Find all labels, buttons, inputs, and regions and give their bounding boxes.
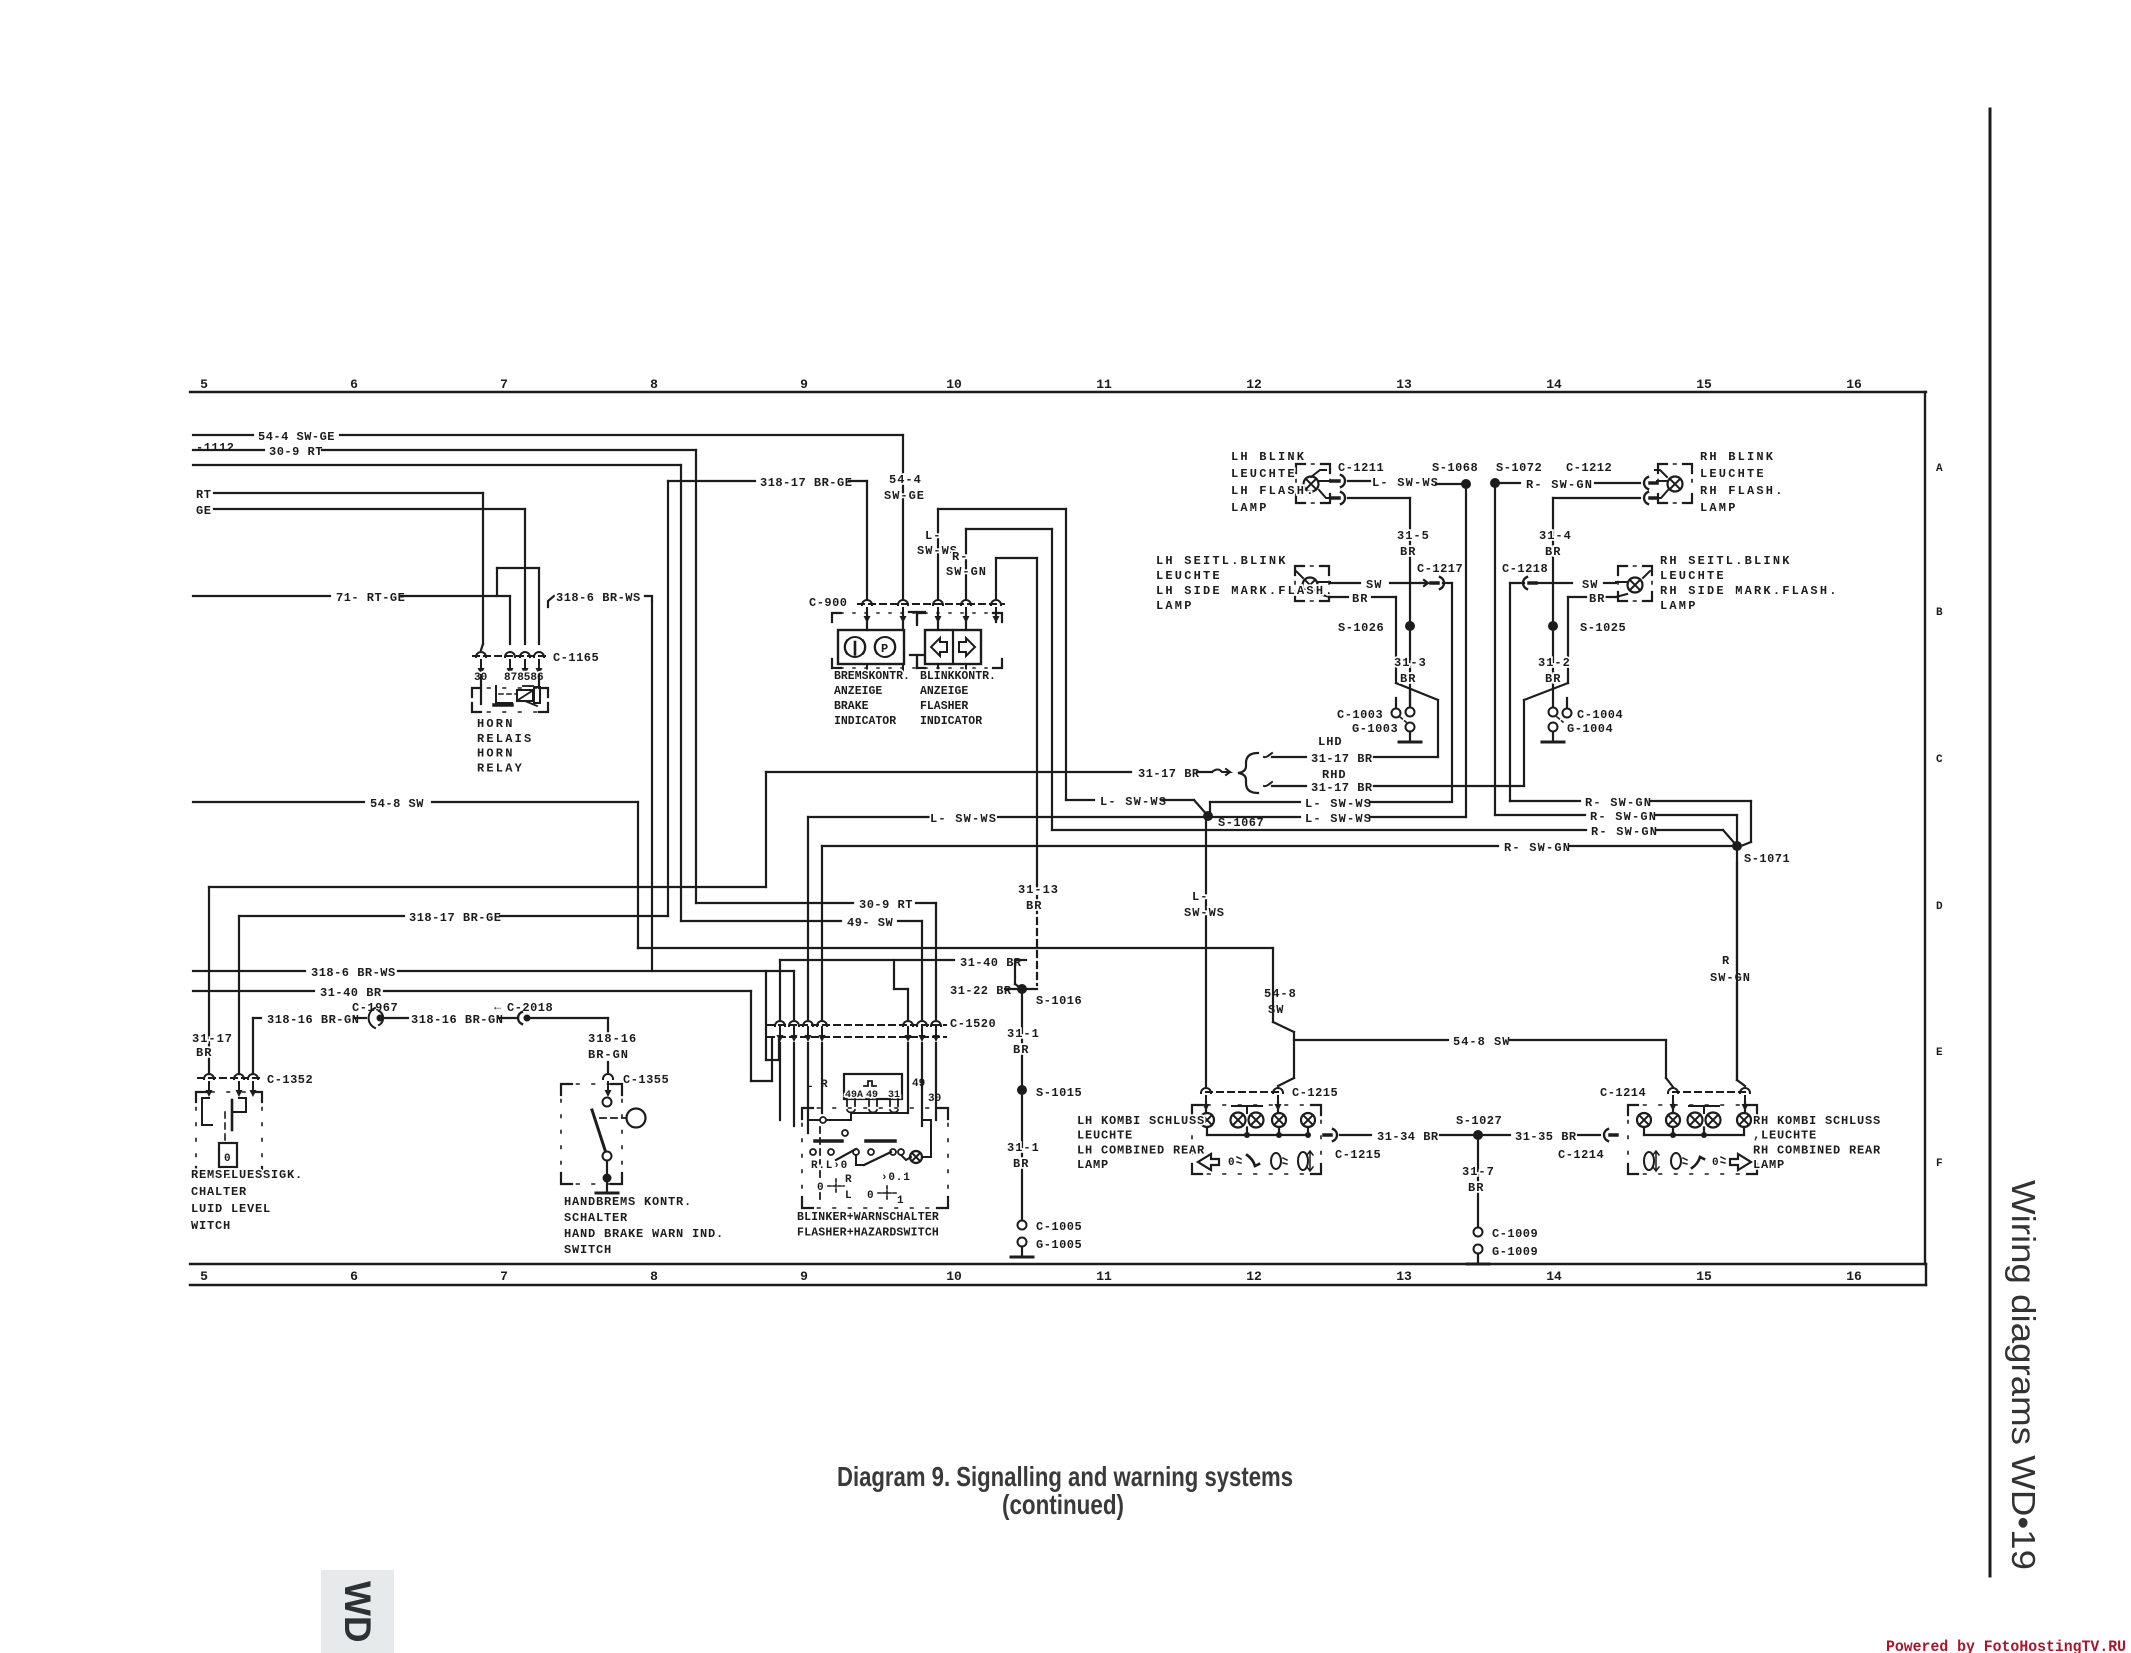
junction S-1027 <box>1456 1114 1502 1227</box>
svg-text:14: 14 <box>1546 377 1562 392</box>
cable -1112 label <box>196 441 235 455</box>
svg-text:RHD: RHD <box>1322 768 1347 782</box>
column numbers top <box>200 377 1862 392</box>
svg-text:L: L <box>845 1190 852 1202</box>
svg-text:LUID LEVEL: LUID LEVEL <box>191 1202 271 1216</box>
svg-text:16: 16 <box>1846 377 1862 392</box>
svg-text:C-1211: C-1211 <box>1338 461 1384 475</box>
svg-text:C-1165: C-1165 <box>553 651 599 665</box>
svg-text:6: 6 <box>350 1269 358 1284</box>
svg-text:8: 8 <box>650 1269 658 1284</box>
svg-text:31-34 BR: 31-34 BR <box>1377 1130 1439 1144</box>
wire 31-35 BR <box>1478 1130 1600 1144</box>
svg-text:WD: WD <box>337 1581 378 1643</box>
svg-text:S-1016: S-1016 <box>1036 994 1082 1008</box>
wire 318-6 BR-WS label top <box>548 591 652 971</box>
svg-text:RT: RT <box>196 488 211 502</box>
svg-text:RH SIDE MARK.FLASH.: RH SIDE MARK.FLASH. <box>1660 584 1839 598</box>
svg-text:HORN: HORN <box>477 717 515 731</box>
svg-text:FLASHER: FLASHER <box>920 700 968 713</box>
svg-text:F: F <box>1936 1158 1943 1170</box>
wire RT stalk <box>196 488 483 650</box>
wire 54-8 SW long run <box>638 947 1273 949</box>
svg-text:C-900: C-900 <box>809 596 848 610</box>
svg-text:31-17 BR: 31-17 BR <box>1311 752 1373 766</box>
LH rear lamp labels <box>1077 1114 1205 1172</box>
svg-text:WITCH: WITCH <box>191 1219 231 1233</box>
connector C-1355 <box>603 1073 669 1097</box>
brakefluid switch <box>196 1092 262 1177</box>
svg-text:31-1: 31-1 <box>1007 1027 1040 1041</box>
wire horn relay link <box>497 568 539 644</box>
svg-text:31-17 BR: 31-17 BR <box>1138 767 1200 781</box>
svg-text:RELAIS: RELAIS <box>477 732 533 746</box>
svg-text:LH SIDE MARK.FLASH.: LH SIDE MARK.FLASH. <box>1156 584 1335 598</box>
junction S-1025 <box>1538 621 1626 712</box>
junction S-1068 <box>1432 461 1478 817</box>
WD page tab box <box>321 1570 394 1653</box>
connector C-1218 <box>1502 562 1548 801</box>
svg-text:318-16: 318-16 <box>588 1032 637 1046</box>
svg-text:31-5: 31-5 <box>1397 529 1430 543</box>
svg-text:5: 5 <box>200 377 208 392</box>
wire 31-34 BR <box>1340 1130 1478 1144</box>
svg-text:CHALTER: CHALTER <box>191 1185 247 1199</box>
svg-text:8: 8 <box>650 377 658 392</box>
svg-text:RH KOMBI SCHLUSS: RH KOMBI SCHLUSS <box>1753 1114 1881 1128</box>
svg-text:54-8 SW: 54-8 SW <box>1453 1035 1510 1049</box>
wire 318-6 BR-WS bus <box>193 966 794 1019</box>
connector C-1215 top <box>1201 1086 1338 1111</box>
wire 71- RT-GE <box>193 591 510 644</box>
label RHD <box>1322 768 1347 782</box>
wire 31-17 BR main <box>766 767 1230 887</box>
RH rear lamp labels <box>1753 1114 1881 1172</box>
svg-text:BR-GN: BR-GN <box>588 1048 629 1062</box>
svg-text:LH BLINK: LH BLINK <box>1231 450 1306 464</box>
svg-text:S-1026: S-1026 <box>1338 621 1384 635</box>
svg-text:31-22 BR: 31-22 BR <box>950 984 1012 998</box>
wire 318-17 BR-GE to C-900 <box>668 476 867 916</box>
svg-text:BR: BR <box>1545 672 1561 686</box>
svg-text:G-1005: G-1005 <box>1036 1238 1082 1252</box>
svg-text:C-1009: C-1009 <box>1492 1227 1538 1241</box>
svg-text:LAMP: LAMP <box>1077 1158 1109 1172</box>
svg-text:31-17 BR: 31-17 BR <box>1311 781 1373 795</box>
svg-text:31-1: 31-1 <box>1007 1141 1040 1155</box>
horn relay label <box>477 717 533 775</box>
svg-text:L- SW-WS: L- SW-WS <box>1100 795 1167 809</box>
svg-text:0: 0 <box>867 1190 874 1202</box>
svg-text:S-1027: S-1027 <box>1456 1114 1502 1128</box>
svg-text:BR: BR <box>1026 899 1042 913</box>
svg-text:G-1003: G-1003 <box>1352 722 1398 736</box>
svg-text:6: 6 <box>350 377 358 392</box>
svg-text:SW: SW <box>1268 1003 1284 1017</box>
wire 49 feed line <box>193 465 681 921</box>
svg-text:L- SW-WS: L- SW-WS <box>930 812 997 826</box>
connector C-1005 <box>1018 1220 1083 1234</box>
svg-text:10: 10 <box>946 1269 962 1284</box>
svg-text:(continued): (continued) <box>1002 1489 1124 1520</box>
wire 30-9 RT feed <box>193 445 696 903</box>
wire R- SW-GN A <box>1510 796 1751 846</box>
wire 318-17 BR-GE lower <box>239 911 668 1074</box>
wire 54-8 SW <box>193 797 638 948</box>
wire GE stalk <box>196 504 525 644</box>
svg-text:›0.1: ›0.1 <box>881 1172 911 1184</box>
svg-text:54-4: 54-4 <box>889 473 922 487</box>
sidebar text Wiring diagrams WD-19 <box>2005 1180 2042 1570</box>
svg-text:C-1218: C-1218 <box>1502 562 1548 576</box>
svg-text:C-1352: C-1352 <box>267 1073 313 1087</box>
brake indicator U1 box <box>838 612 904 664</box>
brake indicator label <box>834 670 910 728</box>
svg-text:7: 7 <box>500 1269 508 1284</box>
svg-text:L- SW-WS: L- SW-WS <box>1305 797 1372 811</box>
svg-text:13: 13 <box>1396 1269 1412 1284</box>
svg-text:BR: BR <box>1352 592 1368 606</box>
frame top ruler line <box>190 391 1926 393</box>
svg-text:C-1520: C-1520 <box>950 1017 996 1031</box>
wire R- SW-GN B <box>1495 810 1737 846</box>
horn relay pin numbers <box>474 672 544 684</box>
svg-text:14: 14 <box>1546 1269 1562 1284</box>
svg-text:30-9 RT: 30-9 RT <box>859 898 913 912</box>
svg-text:Powered by FotoHostingTV.RU: Powered by FotoHostingTV.RU <box>1886 1638 2126 1653</box>
svg-text:C-2018: C-2018 <box>507 1001 553 1015</box>
svg-text:Wiring diagrams WD•19: Wiring diagrams WD•19 <box>2005 1180 2042 1570</box>
wire 31-40 BR branch 2 <box>780 956 1026 1019</box>
wire L- SW-WS row A <box>1348 476 1466 490</box>
svg-text:11: 11 <box>1096 1269 1112 1284</box>
brakefluid switch label <box>191 1168 303 1233</box>
junction S-1071 <box>1732 841 1790 1080</box>
svg-text:15: 15 <box>1696 377 1712 392</box>
svg-text:31-7: 31-7 <box>1462 1165 1495 1179</box>
RH side marker lamp <box>1616 566 1652 601</box>
svg-text:BR: BR <box>1400 545 1416 559</box>
svg-text:A: A <box>1936 463 1943 475</box>
connector C-1217 <box>1417 562 1463 801</box>
svg-text:D: D <box>1936 901 1943 913</box>
svg-text:C-1212: C-1212 <box>1566 461 1612 475</box>
hazard switch box <box>802 1108 948 1208</box>
svg-text:C-1214: C-1214 <box>1558 1148 1604 1162</box>
svg-text:BR: BR <box>1545 545 1561 559</box>
svg-text:31-40 BR: 31-40 BR <box>960 956 1022 970</box>
connector C-1165 <box>473 651 599 675</box>
svg-text:SW-GE: SW-GE <box>884 489 925 503</box>
LH flash lamp label <box>1231 450 1316 515</box>
wire 31-17 BR branch <box>209 887 766 1074</box>
svg-text:BR: BR <box>1013 1157 1029 1171</box>
wire 54-4 SW-GE feed <box>193 430 903 599</box>
wire 31-17 BR LHD <box>1264 735 1438 766</box>
wire 54-8 SW right <box>1264 948 1673 1087</box>
svg-text:54-4 SW-GE: 54-4 SW-GE <box>258 430 335 444</box>
svg-text:9: 9 <box>800 1269 808 1284</box>
svg-text:,LEUCHTE: ,LEUCHTE <box>1753 1129 1817 1143</box>
svg-text:BLINKER+WARNSCHALTER: BLINKER+WARNSCHALTER <box>797 1211 939 1224</box>
row letters A-F <box>1936 463 1943 1170</box>
wire L- SW-WS to C-1217 <box>1210 797 1452 816</box>
svg-text:LEUCHTE: LEUCHTE <box>1660 569 1726 583</box>
wire 31-40 BR bus <box>193 986 772 1081</box>
svg-text:878586: 878586 <box>504 672 544 684</box>
wire L- SW-WS upper <box>1066 795 1208 816</box>
svg-text:11: 11 <box>1096 377 1112 392</box>
junction S-1067 <box>1203 811 1264 830</box>
svg-text:LH COMBINED REAR: LH COMBINED REAR <box>1077 1143 1205 1157</box>
svg-text:LAMP: LAMP <box>1156 599 1194 613</box>
connector C-1214 side <box>1558 1129 1617 1162</box>
svg-text:BR: BR <box>1589 592 1605 606</box>
svg-text:C-1215: C-1215 <box>1335 1148 1381 1162</box>
junction S-1072 <box>1490 461 1542 815</box>
svg-text:318-17 BR-GE: 318-17 BR-GE <box>409 911 501 925</box>
svg-text:C-1004: C-1004 <box>1577 708 1623 722</box>
svg-text:30-9 RT: 30-9 RT <box>269 445 323 459</box>
junction S-1016 <box>1007 984 1082 1086</box>
svg-text:49: 49 <box>912 1078 925 1090</box>
svg-text:L- SW-WS: L- SW-WS <box>1305 812 1372 826</box>
wire 318-16 BR-GN left <box>253 1013 366 1074</box>
svg-text:0: 0 <box>817 1182 824 1194</box>
wire 318-16 BR-GN mid <box>411 1013 518 1027</box>
svg-text:R- SW-GN: R- SW-GN <box>1591 825 1658 839</box>
ground G-1005 <box>1011 1238 1082 1258</box>
svg-text:BRAKE: BRAKE <box>834 700 869 713</box>
svg-text:R- SW-GN: R- SW-GN <box>1590 810 1657 824</box>
svg-text:INDICATOR: INDICATOR <box>834 715 896 728</box>
connector C-1214 top <box>1600 1086 1750 1111</box>
wire BR RH marker <box>1524 592 1616 786</box>
wire 31-17 BR label left <box>192 1032 233 1060</box>
svg-text:LH SEITL.BLINK: LH SEITL.BLINK <box>1156 554 1288 568</box>
svg-text:R: R <box>845 1174 852 1186</box>
wire 49- SW to switch <box>681 916 922 1019</box>
horn relay K1 box <box>472 675 548 712</box>
svg-text:10: 10 <box>946 377 962 392</box>
svg-text:C-1217: C-1217 <box>1417 562 1463 576</box>
svg-text:-1112: -1112 <box>196 441 235 455</box>
frame right border <box>1924 392 1926 1264</box>
sidebar separator line <box>1989 109 1992 1576</box>
caption title <box>837 1461 1293 1520</box>
svg-text:31-17: 31-17 <box>192 1032 233 1046</box>
svg-text:5: 5 <box>200 1269 208 1284</box>
svg-text:HAND BRAKE WARN IND.: HAND BRAKE WARN IND. <box>564 1227 724 1241</box>
connector C-2018 <box>494 1000 608 1036</box>
svg-text:LAMP: LAMP <box>1660 599 1698 613</box>
svg-text:9: 9 <box>800 377 808 392</box>
svg-text:71- RT-GE: 71- RT-GE <box>336 591 405 605</box>
svg-text:INDICATOR: INDICATOR <box>920 715 982 728</box>
svg-text:REMSFLUESSIGK.: REMSFLUESSIGK. <box>191 1168 303 1182</box>
svg-text:BR: BR <box>196 1046 212 1060</box>
svg-text:30: 30 <box>928 1093 941 1105</box>
column numbers bottom <box>200 1269 1862 1284</box>
wire 31-22 BR <box>950 984 1022 998</box>
svg-text:31-13: 31-13 <box>1018 883 1059 897</box>
wire 318-16 BR-GN drop <box>588 1032 637 1072</box>
svg-text:S-1071: S-1071 <box>1744 852 1790 866</box>
svg-text:54-8 SW: 54-8 SW <box>370 797 424 811</box>
svg-text:BR: BR <box>1013 1043 1029 1057</box>
svg-text:C-1003: C-1003 <box>1337 708 1383 722</box>
wire L bus drop <box>807 817 809 1019</box>
flasher indicator label <box>920 670 996 728</box>
svg-text:1: 1 <box>897 1195 904 1207</box>
svg-text:C-1214: C-1214 <box>1600 1086 1646 1100</box>
svg-text:S-1072: S-1072 <box>1496 461 1542 475</box>
svg-text:BR: BR <box>1468 1181 1484 1195</box>
svg-text:R.L›0: R.L›0 <box>811 1160 848 1172</box>
wire R- SW-GN row A <box>1495 478 1640 492</box>
svg-text:BREMSKONTR.: BREMSKONTR. <box>834 670 910 683</box>
svg-text:HANDBREMS KONTR.: HANDBREMS KONTR. <box>564 1195 692 1209</box>
wire label 54-4 SW-GE vertical <box>884 473 925 503</box>
watermark Powered by FotoHostingTV.RU <box>1886 1638 2126 1653</box>
handbrake switch <box>561 1084 646 1193</box>
connector C-1003 <box>1337 698 1415 722</box>
svg-text:LHD: LHD <box>1318 735 1343 749</box>
svg-text:R- SW-GN: R- SW-GN <box>1526 478 1593 492</box>
frame bottom ruler <box>190 1264 1926 1285</box>
RH side marker label <box>1660 554 1839 613</box>
hazard switch position marks <box>811 1160 911 1207</box>
hazard switch internals <box>780 1043 941 1200</box>
svg-text:RH SEITL.BLINK: RH SEITL.BLINK <box>1660 554 1792 568</box>
svg-text:0: 0 <box>224 1153 231 1165</box>
connector C-900 <box>809 596 1004 623</box>
wire R-SW-GN to RH rear <box>1710 862 1751 1086</box>
svg-text:C-1005: C-1005 <box>1036 1220 1082 1234</box>
LH rear lamp cluster box <box>1192 1102 1321 1174</box>
wire 31-13 BR indicator ground <box>996 558 1037 985</box>
svg-text:12: 12 <box>1246 377 1262 392</box>
svg-text:318-16 BR-GN: 318-16 BR-GN <box>267 1013 359 1027</box>
svg-text:31-4: 31-4 <box>1539 529 1572 543</box>
svg-text:LEUCHTE: LEUCHTE <box>1231 467 1297 481</box>
svg-text:R-: R- <box>952 550 968 564</box>
svg-text:←: ← <box>494 1000 502 1014</box>
svg-text:S-1015: S-1015 <box>1036 1086 1082 1100</box>
svg-text:ANZEIGE: ANZEIGE <box>920 685 968 698</box>
svg-text:SCHALTER: SCHALTER <box>564 1211 628 1225</box>
svg-text:7: 7 <box>500 377 508 392</box>
wire 31-17 BR RHD <box>1264 781 1524 795</box>
svg-text:31-40 BR: 31-40 BR <box>320 986 382 1000</box>
svg-text:L- SW-WS: L- SW-WS <box>1372 476 1439 490</box>
connector C-1004 <box>1549 698 1624 722</box>
svg-text:318-16 BR-GN: 318-16 BR-GN <box>411 1013 503 1027</box>
svg-text:GE: GE <box>196 504 211 518</box>
svg-text:RELAY: RELAY <box>477 761 524 775</box>
wire SW to C-1217 <box>1330 578 1428 592</box>
wire label R-SW-GN <box>946 550 987 579</box>
wire L-SW-WS to LH rear <box>1184 816 1225 1086</box>
connector C-1009 <box>1474 1227 1539 1241</box>
junction S-1015 <box>1007 1085 1082 1220</box>
wire label L-SW-WS <box>917 529 958 558</box>
connector C-1352 <box>198 1073 313 1097</box>
flasher unit box <box>844 1074 902 1112</box>
connector C-1520 <box>768 1017 996 1042</box>
svg-text:G-1009: G-1009 <box>1492 1245 1538 1259</box>
svg-text:R- SW-GN: R- SW-GN <box>1504 841 1571 855</box>
svg-text:15: 15 <box>1696 1269 1712 1284</box>
brace LHD RHD split <box>1238 753 1258 793</box>
ground G-1003 <box>1352 722 1421 742</box>
svg-text:E: E <box>1936 1047 1943 1059</box>
wire R- SW-GN C <box>1052 825 1737 846</box>
svg-text:LAMP: LAMP <box>1231 501 1269 515</box>
svg-text:318-6 BR-WS: 318-6 BR-WS <box>556 591 641 605</box>
svg-text:LEUCHTE: LEUCHTE <box>1077 1129 1133 1143</box>
wire 31-13 BR label <box>1018 883 1059 913</box>
connector C-1212 <box>1566 461 1657 504</box>
wire L-SW-WS from indicator <box>938 509 1066 800</box>
svg-text:31-35 BR: 31-35 BR <box>1515 1130 1577 1144</box>
svg-text:BLINKKONTR.: BLINKKONTR. <box>920 670 996 683</box>
indicator cluster bracket <box>832 613 1002 668</box>
svg-text:R- SW-GN: R- SW-GN <box>1585 796 1652 810</box>
svg-text:C: C <box>1936 754 1943 766</box>
svg-text:Diagram 9. Signalling and warn: Diagram 9. Signalling and warning system… <box>837 1461 1293 1492</box>
svg-text:RH FLASH.: RH FLASH. <box>1700 484 1785 498</box>
svg-text:P: P <box>881 642 888 656</box>
svg-text:31-2: 31-2 <box>1538 656 1571 670</box>
wire 30-9 RT to switch <box>696 898 936 1019</box>
svg-text:318-17 BR-GE: 318-17 BR-GE <box>760 476 852 490</box>
svg-text:ANZEIGE: ANZEIGE <box>834 685 882 698</box>
svg-text:12: 12 <box>1246 1269 1262 1284</box>
ground G-1004 <box>1542 722 1613 742</box>
svg-text:FLASHER+HAZARDSWITCH: FLASHER+HAZARDSWITCH <box>797 1227 939 1240</box>
svg-text:B: B <box>1936 607 1943 619</box>
wire 31-17 BR to switch <box>766 971 779 1060</box>
svg-text:LEUCHTE: LEUCHTE <box>1700 467 1766 481</box>
svg-text:C-1215: C-1215 <box>1292 1086 1338 1100</box>
svg-text:13: 13 <box>1396 377 1412 392</box>
wire L- SW-WS bus <box>808 812 1466 826</box>
wire R-SW-GN from indicator <box>966 529 1052 830</box>
svg-text:LEUCHTE: LEUCHTE <box>1156 569 1222 583</box>
svg-text:L-: L- <box>925 529 941 543</box>
LH side marker label <box>1156 554 1335 613</box>
wire R bus drop <box>821 846 823 1019</box>
RH flash lamp <box>1654 464 1692 503</box>
svg-text:SWITCH: SWITCH <box>564 1243 612 1257</box>
svg-text:S-1068: S-1068 <box>1432 461 1478 475</box>
svg-text:SW-GN: SW-GN <box>946 565 987 579</box>
svg-text:318-6 BR-WS: 318-6 BR-WS <box>311 966 396 980</box>
ground G-1009 <box>1467 1245 1538 1265</box>
svg-text:31-3: 31-3 <box>1394 656 1427 670</box>
hazard switch label <box>797 1211 939 1240</box>
svg-text:G-1004: G-1004 <box>1567 722 1613 736</box>
svg-text:S-1025: S-1025 <box>1580 621 1626 635</box>
svg-text:C-1355: C-1355 <box>623 1073 669 1087</box>
flasher indicator U2 box <box>867 612 996 673</box>
connector C-1211 <box>1332 461 1384 504</box>
svg-text:L-: L- <box>1192 890 1208 904</box>
svg-text:RH COMBINED REAR: RH COMBINED REAR <box>1753 1143 1881 1157</box>
svg-text:16: 16 <box>1846 1269 1862 1284</box>
wire R- SW-GN D <box>822 841 1737 855</box>
